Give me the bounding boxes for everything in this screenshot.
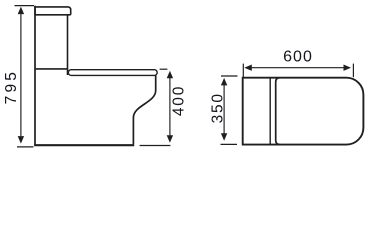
dimension 795: extension tick top xyxy=(15,5,35,7)
dimension 600: extension tick left xyxy=(242,64,244,78)
dimension 400: extension line bottom xyxy=(140,145,171,147)
dimension 795: vertical line with arrows xyxy=(18,7,24,144)
dimension 350: label text xyxy=(210,92,227,123)
dimension 350: extension tick top xyxy=(221,75,238,77)
toilet side view: cistern lid xyxy=(35,7,71,15)
svg-text:600: 600 xyxy=(283,48,313,65)
dimension 400: extension tick top xyxy=(160,68,168,70)
toilet side view: cistern body xyxy=(35,15,68,75)
svg-text:795: 795 xyxy=(3,69,20,104)
toilet side view: base floor line xyxy=(34,144,134,146)
toilet side view: seat xyxy=(68,70,157,76)
svg-text:400: 400 xyxy=(170,85,187,116)
toilet side view: back edge xyxy=(34,6,36,146)
toilet side view: pan front S-curve xyxy=(133,75,155,144)
dimension 795: extension tick bottom xyxy=(17,146,34,148)
toilet top view: outer outline xyxy=(243,78,364,145)
dimension 400: label text xyxy=(170,85,187,116)
dimension 350: vertical line with arrows xyxy=(221,78,227,141)
svg-text:350: 350 xyxy=(210,92,227,123)
toilet top view: seat edge xyxy=(276,78,280,145)
dimension 600: extension tick right xyxy=(352,64,354,78)
dimension 795: label text xyxy=(3,69,20,104)
dimension 400: vertical line with arrows xyxy=(167,71,173,143)
dimension 600: label text xyxy=(283,48,313,65)
dimension 350: extension tick bottom xyxy=(221,143,238,145)
toilet top view: cistern divider xyxy=(269,78,271,145)
dimension 600: horizontal line with arrows xyxy=(244,65,351,71)
